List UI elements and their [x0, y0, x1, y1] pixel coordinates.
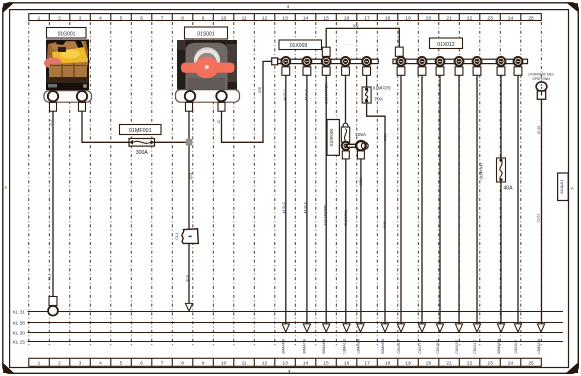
arrow 01X012 pin 4 to KL30 — [455, 324, 462, 332]
svg-text:24: 24 — [508, 361, 514, 367]
battery 01G001 photo — [44, 40, 90, 91]
fuse 01MF047 40A — [497, 158, 506, 182]
svg-text:01MF001: 01MF001 — [129, 128, 152, 134]
label box 01X012 — [430, 38, 463, 49]
svg-text:A: A — [571, 186, 574, 191]
wire fuse40 down — [500, 182, 502, 324]
svg-text:13: 13 — [282, 15, 288, 21]
arrow 01X012 pin 3 to KL30 — [436, 324, 443, 332]
terminal ring fuse125 left — [341, 141, 350, 150]
svg-text:13MA3.8: 13MA3.8 — [356, 339, 360, 354]
svg-text:8: 8 — [181, 15, 184, 21]
svg-text:A: A — [5, 185, 8, 190]
svg-text:2: 2 — [58, 15, 61, 21]
pin below hydronic — [537, 91, 545, 99]
svg-text:300A: 300A — [136, 150, 149, 156]
pin connector above 01X012 pin 1 — [395, 47, 403, 56]
wire junction down to connector C1-1 — [188, 146, 190, 229]
svg-text:30MA4.8: 30MA4.8 — [497, 339, 501, 354]
svg-text:30MA8.8: 30MA8.8 — [322, 339, 326, 354]
svg-text:4443: 4443 — [383, 221, 387, 229]
svg-text:KL 31: KL 31 — [13, 310, 25, 315]
svg-text:7: 7 — [161, 361, 164, 367]
svg-text:16: 16 — [344, 15, 350, 21]
pin connector below 01X012 pin 7 — [514, 67, 522, 76]
svg-text:44 30.2: 44 30.2 — [283, 89, 287, 100]
terminal S1 pin1 — [185, 91, 195, 101]
pin connector below 01X012 pin 1 — [397, 67, 405, 76]
svg-text:C1-1: C1-1 — [175, 232, 179, 239]
pin connector below 01X009 pin 5 — [363, 67, 371, 76]
svg-text:14: 14 — [303, 15, 309, 21]
svg-text:13B1: 13B1 — [359, 177, 363, 185]
svg-text:30.5: 30.5 — [189, 173, 193, 180]
wire 01X012 pin6 to fuse 40A — [500, 75, 502, 158]
wire fuse70 down jog — [367, 103, 385, 324]
pin connector below 01X009 pin 4 — [342, 67, 350, 76]
svg-text:21: 21 — [446, 15, 452, 21]
junction node main 30 — [186, 139, 193, 146]
svg-text:23: 23 — [487, 15, 493, 21]
terminal ring 01X012 pin 2 — [417, 56, 427, 66]
pin connector below 01X012 pin 6 — [497, 67, 505, 76]
svg-text:31.1: 31.1 — [48, 120, 52, 127]
terminal ring 01X009 pin 5 — [362, 56, 372, 66]
terminal strip 01G001 — [44, 91, 92, 103]
label box 01MF006 — [327, 120, 339, 156]
arrow onto KL31 — [185, 303, 192, 311]
svg-text:01MF047: 01MF047 — [479, 162, 484, 180]
pin connector below 01X009 pin 2 — [303, 67, 311, 76]
svg-text:5: 5 — [120, 361, 123, 367]
svg-text:20: 20 — [426, 361, 432, 367]
svg-text:30 62: 30 62 — [537, 126, 541, 135]
switch 01S001 photo — [177, 40, 237, 90]
terminal G1 plus — [77, 91, 87, 101]
svg-text:OPSIYONU: OPSIYONU — [532, 77, 550, 81]
svg-text:4443: 4443 — [384, 134, 388, 142]
terminal ring 01X012 pin 5 — [472, 56, 482, 66]
wire 01X012 pin 7 down — [517, 75, 519, 324]
wire 01X009 pin5 to fuse 70A — [366, 75, 368, 87]
pin connector below 01X009 pin 3 — [322, 67, 330, 76]
svg-text:8: 8 — [181, 361, 184, 367]
arrow pin1 to KL30 — [282, 324, 289, 332]
svg-text:24: 24 — [508, 15, 514, 21]
wire 01X012 pin 2 down — [421, 75, 423, 324]
svg-text:C6041.7: C6041.7 — [473, 339, 477, 353]
arrow 01X012 pin6 to KL30 — [497, 324, 504, 332]
svg-text:KL 15: KL 15 — [13, 340, 25, 345]
terminal S1 pin2 — [216, 91, 226, 101]
svg-text:01MF006: 01MF006 — [329, 128, 334, 146]
svg-text:10: 10 — [221, 15, 227, 21]
wire hydronic down — [541, 99, 543, 324]
svg-text:44 30.2: 44 30.2 — [282, 202, 286, 213]
svg-text:4: 4 — [99, 361, 102, 367]
svg-text:5: 5 — [120, 15, 123, 21]
arrow 01X012 pin 5 to KL30 — [473, 324, 480, 332]
wire fuse125 right down — [360, 159, 362, 324]
svg-text:22: 22 — [467, 15, 473, 21]
svg-text:21: 21 — [446, 361, 452, 367]
svg-text:12: 12 — [262, 15, 268, 21]
svg-text:14: 14 — [303, 361, 309, 367]
svg-text:31.1: 31.1 — [48, 274, 52, 281]
arrow pin2 to KL30 — [303, 324, 310, 332]
svg-text:22: 22 — [467, 361, 473, 367]
svg-text:30: 30 — [217, 120, 221, 124]
connector C1-1 — [175, 229, 199, 244]
wire 01X009 pin4 to fuse 125A — [345, 75, 347, 123]
wire fuse125 left down — [345, 159, 347, 324]
svg-text:9: 9 — [202, 361, 205, 367]
wire 01X012 pin 1 down — [400, 75, 402, 324]
pin below fuse125 right — [357, 151, 364, 159]
pin connector above 01X009 pin 3 — [322, 47, 330, 56]
svg-text:25: 25 — [528, 361, 534, 367]
svg-text:10: 10 — [221, 361, 227, 367]
terminal ring 01X009 pin 1 — [281, 56, 291, 66]
arrow 01X012 pin 1 to KL30 — [397, 324, 404, 332]
arrow 4443 to KL30 — [381, 324, 388, 332]
svg-text:30MA6.8: 30MA6.8 — [282, 339, 286, 354]
svg-text:17: 17 — [364, 15, 370, 21]
svg-text:30.6: 30.6 — [185, 275, 189, 282]
terminal ring 01X012 pin 1 — [396, 56, 406, 66]
corner mark top-right — [567, 3, 578, 12]
label box 01X009 — [279, 40, 322, 50]
arrow hydronic to KL30 — [537, 324, 544, 332]
svg-text:13MA1.8: 13MA1.8 — [342, 339, 346, 354]
pin below G1 plus — [79, 102, 86, 111]
svg-text:25: 25 — [528, 15, 534, 21]
net KL 58 bus line — [13, 321, 563, 326]
bus bar 01X012 — [393, 59, 528, 63]
terminal ring 01X009 pin 2 — [302, 56, 312, 66]
svg-text:18: 18 — [385, 15, 391, 21]
label box 01S001 — [185, 27, 228, 39]
fuse 01MF006 125A — [341, 123, 349, 142]
svg-text:01X012: 01X012 — [437, 42, 454, 48]
corner mark top-left — [3, 3, 13, 12]
terminal ring 01X012 pin 4 — [454, 56, 464, 66]
svg-text:13: 13 — [282, 361, 288, 367]
terminal ring 01X009 pin 3 — [321, 56, 331, 66]
net KL 31 bus line — [13, 310, 563, 315]
label HYDRONIC M10 OPSIYONU — [529, 73, 554, 81]
wire junction to switch S1 terminal 1 — [188, 111, 190, 139]
svg-text:30MA9.8: 30MA9.8 — [381, 339, 385, 354]
terminal G1 minus — [48, 91, 58, 101]
svg-text:17: 17 — [364, 361, 370, 367]
svg-text:40A: 40A — [503, 186, 513, 192]
net KL 15 bus line — [13, 340, 563, 345]
pin connector below 01X012 pin 3 — [436, 67, 444, 76]
svg-text:12: 12 — [262, 361, 268, 367]
svg-text:20: 20 — [426, 15, 432, 21]
svg-text:16: 16 — [344, 361, 350, 367]
wire switch S1 terminal 2 to bus 01X009 — [222, 61, 273, 142]
link bar fuse125 — [346, 144, 361, 148]
svg-text:..........: .......... — [343, 42, 352, 46]
svg-text:9: 9 — [202, 15, 205, 21]
arrow 01X012 pin 7 to KL30 — [514, 324, 521, 332]
svg-text:13MA4.8: 13MA4.8 — [537, 339, 541, 354]
svg-text:23: 23 — [487, 361, 493, 367]
wire C1-1 to KL31 arrow — [188, 243, 190, 304]
svg-text:30R: 30R — [258, 86, 262, 93]
svg-text:19: 19 — [405, 15, 411, 21]
wire battery G1 negative to KL31 — [52, 111, 54, 297]
wire 01X012 pin 3 down — [439, 75, 441, 324]
pin connector below 01X012 pin 5 — [473, 67, 481, 76]
svg-text:30y: 30y — [353, 24, 359, 28]
wire 01X009 pin3 down (starter) — [325, 75, 327, 324]
corner mark bottom-left — [3, 363, 14, 373]
terminal ring 01X012 pin 7 — [513, 56, 523, 66]
svg-text:01X009: 01X009 — [290, 43, 308, 49]
pin below S1 pin2 — [218, 102, 225, 111]
net KL 30 bus line — [13, 331, 563, 336]
wire 30y jumper to bus 01X012 — [326, 28, 399, 47]
terminal ring on KL31 — [48, 306, 58, 316]
svg-text:13 61: 13 61 — [536, 214, 540, 223]
wire 01X009 pin1 down — [285, 75, 287, 324]
svg-text:01G001: 01G001 — [58, 31, 76, 37]
wire 01X012 pin 5 down — [476, 75, 478, 324]
svg-text:30(STARTER): 30(STARTER) — [323, 204, 327, 226]
svg-text:1: 1 — [38, 361, 41, 367]
terminal ring 01X012 pin 3 — [435, 56, 445, 66]
svg-text:125A: 125A — [355, 132, 367, 138]
svg-text:C6045.7: C6045.7 — [436, 339, 440, 353]
svg-text:6: 6 — [140, 15, 143, 21]
arrow fuse125-right to KL30 — [357, 324, 364, 332]
svg-text:C6040.7: C6040.7 — [514, 339, 518, 353]
fuse 01MF070 70A — [362, 87, 371, 103]
pin connector below 01X009 pin 1 — [282, 67, 290, 76]
svg-text:44 30.6: 44 30.6 — [304, 89, 308, 100]
svg-text:01MF070: 01MF070 — [373, 85, 391, 90]
svg-text:6: 6 — [140, 361, 143, 367]
svg-text:15: 15 — [323, 361, 329, 367]
top ruler scale 1-25 — [29, 14, 542, 21]
fuse 01MF001 300A — [129, 139, 155, 147]
label box 01MF001 — [120, 125, 162, 135]
terminal ring fuse125 right — [356, 141, 368, 151]
pin below G1 minus — [50, 102, 57, 111]
wire 01X009 pin2 down — [306, 75, 308, 324]
svg-text:70A: 70A — [374, 97, 383, 103]
pin battery negative lower — [49, 297, 57, 306]
svg-text:C6049.7: C6049.7 — [397, 339, 401, 353]
wire fuse 300A to junction — [155, 141, 187, 143]
arrow fuse125-left to KL30 — [343, 324, 350, 332]
svg-text:30(STARTER): 30(STARTER) — [324, 82, 328, 104]
svg-text:1: 1 — [38, 15, 41, 21]
svg-text:3: 3 — [79, 15, 82, 21]
bus bar 01X009 — [272, 58, 379, 65]
svg-text:3: 3 — [79, 361, 82, 367]
arrow 01X012 pin 2 to KL30 — [418, 324, 425, 332]
terminal hydronic — [536, 82, 547, 91]
svg-text:18: 18 — [385, 361, 391, 367]
svg-text:19: 19 — [405, 361, 411, 367]
reference box 010AA1 — [558, 173, 569, 201]
column grid dashed lines — [29, 22, 542, 348]
pin connector below 01X012 pin 4 — [455, 67, 463, 76]
arrow pin3 to KL30 — [323, 324, 330, 332]
label box 01G001 — [47, 28, 87, 39]
svg-text:C6043.7: C6043.7 — [455, 339, 459, 353]
wire battery G1 positive to fuse 01MF001 — [82, 111, 129, 142]
svg-text:KL 58: KL 58 — [13, 321, 25, 326]
svg-text:7: 7 — [161, 15, 164, 21]
terminal strip 01S001 — [176, 90, 240, 103]
terminal ring 01X012 pin 6 — [496, 56, 506, 66]
pin below S1 pin1 — [186, 102, 193, 111]
svg-text:11: 11 — [242, 15, 247, 21]
svg-text:01S001: 01S001 — [197, 32, 214, 38]
terminal ring 01X009 pin 4 — [341, 56, 351, 66]
svg-text:4: 4 — [99, 15, 102, 21]
svg-text:010AA1: 010AA1 — [559, 179, 564, 194]
svg-text:KL 30: KL 30 — [13, 331, 25, 336]
pin connector below 01X012 pin 2 — [418, 67, 426, 76]
svg-text:30(MARS): 30(MARS) — [344, 210, 348, 226]
svg-text:15: 15 — [323, 15, 329, 21]
svg-text:C6047.7: C6047.7 — [418, 339, 422, 353]
svg-text:44 30.6: 44 30.6 — [303, 202, 307, 213]
svg-text:11: 11 — [242, 361, 247, 367]
pin below fuse125 left — [342, 151, 349, 159]
svg-text:2: 2 — [58, 361, 61, 367]
bottom ruler scale 1-25 — [29, 358, 542, 366]
svg-text:30MA7.8: 30MA7.8 — [303, 339, 307, 354]
wire 01X012 pin 4 down — [458, 75, 460, 324]
corner mark bottom-right — [566, 363, 578, 374]
